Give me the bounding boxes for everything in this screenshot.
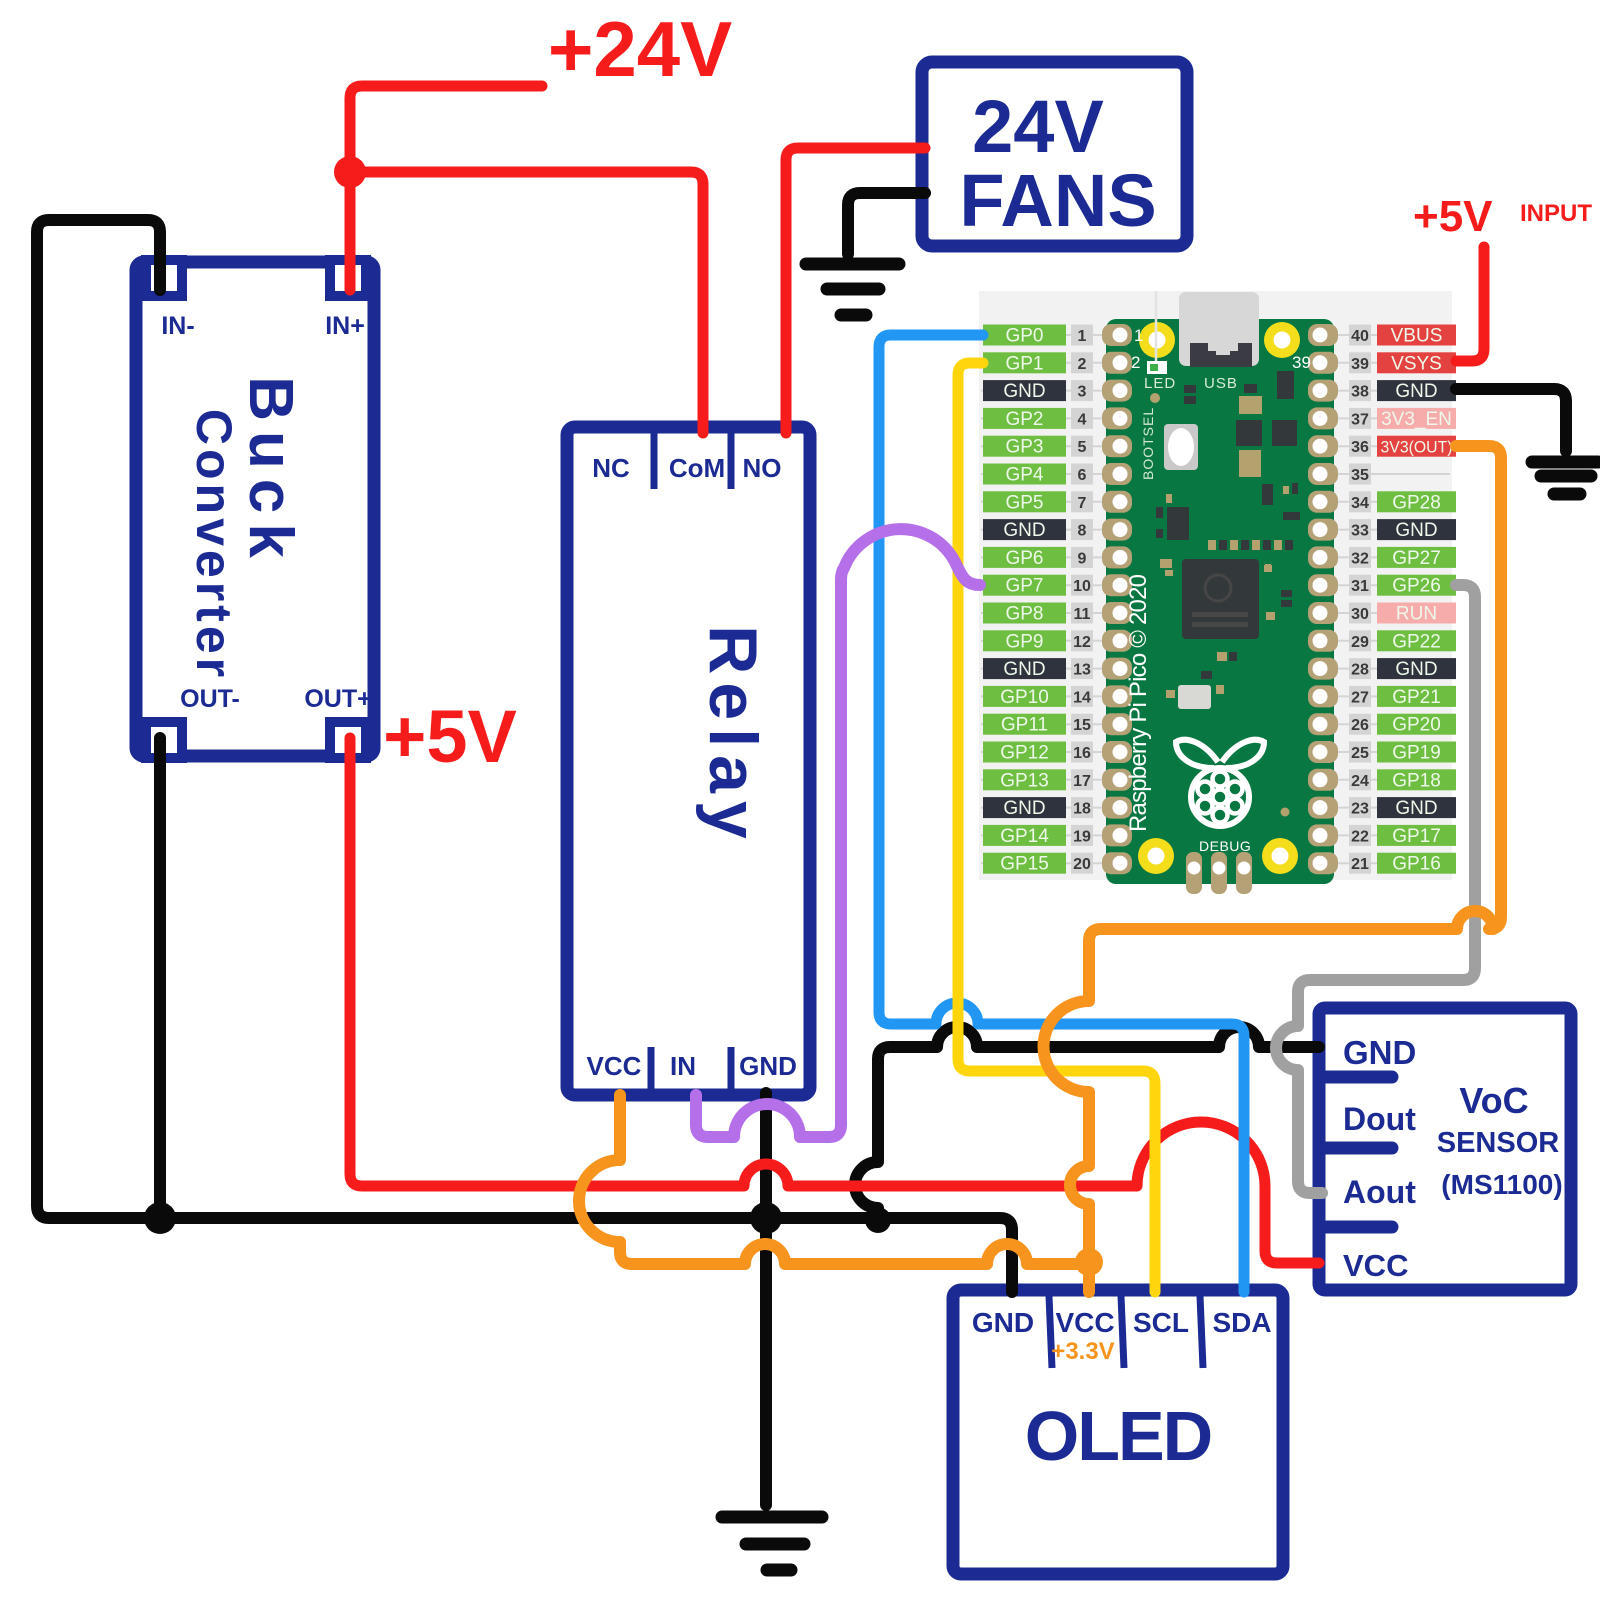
svg-text:24: 24: [1351, 773, 1369, 790]
svg-text:GP9: GP9: [1005, 631, 1043, 652]
svg-text:27: 27: [1351, 689, 1369, 706]
LED: [1144, 291, 1176, 392]
svg-text:12: 12: [1073, 634, 1091, 651]
wire: Pico GP0 to OLED SDA (hop yellow): [879, 335, 1244, 1292]
pin 36 label 3V3(OUT): [1349, 436, 1456, 457]
pin 1 label GP0: [983, 325, 1093, 347]
relay pin labels VCC IN GND: [587, 1051, 797, 1081]
svg-text:GND: GND: [1003, 659, 1045, 680]
svg-text:GP22: GP22: [1392, 631, 1441, 652]
svg-text:Aout: Aout: [1343, 1174, 1416, 1210]
net label +24V: [548, 5, 732, 93]
svg-text:(MS1100): (MS1100): [1441, 1169, 1562, 1200]
net label +5V: [383, 695, 517, 778]
svg-text:GP19: GP19: [1392, 743, 1441, 764]
svg-text:14: 14: [1073, 689, 1091, 706]
svg-text:39: 39: [1292, 353, 1311, 372]
wire: relay GND down to ground symbol: [760, 1093, 772, 1505]
pin row guide lines: [981, 335, 1450, 863]
ground symbol (main bottom): [722, 1517, 822, 1570]
svg-text:31: 31: [1351, 578, 1369, 595]
crystal: [1166, 685, 1211, 709]
svg-text:OUT+: OUT+: [304, 685, 371, 713]
VOC sensor title (MS1100): [1437, 1080, 1563, 1200]
svg-text:GP3: GP3: [1005, 437, 1043, 458]
pin 17 label GP13: [983, 769, 1093, 791]
svg-text:GP6: GP6: [1005, 548, 1043, 569]
svg-text:Raspberry Pi Pico © 2020: Raspberry Pi Pico © 2020: [1125, 574, 1152, 832]
wire: relay VCC to 3.3V rail (bulge around red+black, hops): [579, 1095, 1089, 1264]
wire: Pico GND pin38 to ground: [1456, 389, 1566, 451]
pin 3 label GND: [983, 380, 1093, 402]
buck converter module: [136, 260, 374, 758]
wire: fans box to ground: [848, 193, 925, 254]
svg-text:30: 30: [1351, 606, 1369, 623]
pin 16 label GP12: [983, 742, 1093, 764]
silkscreen "Raspberry Pi Pico (c) 2020": [1125, 574, 1152, 832]
svg-text:40: 40: [1351, 328, 1369, 345]
svg-text:1: 1: [1078, 328, 1087, 345]
wire: buck IN- to ground bus (left loop): [37, 220, 1012, 1292]
net label +5V INPUT: [1413, 192, 1592, 241]
svg-text:6: 6: [1078, 467, 1087, 484]
svg-text:VCC: VCC: [1055, 1307, 1114, 1338]
pin 13 label GND: [983, 658, 1093, 680]
pin 11 label GP8: [983, 603, 1093, 625]
svg-text:32: 32: [1351, 550, 1369, 567]
pin 29 label GP22: [1349, 630, 1456, 652]
wire: Pico GP7 to relay IN (arc, hop black): [696, 529, 980, 1137]
relay title: [695, 625, 771, 846]
svg-text:GP13: GP13: [1000, 770, 1049, 791]
USB connector: [1179, 292, 1259, 367]
svg-text:RUN: RUN: [1396, 604, 1437, 625]
svg-text:Relay: Relay: [695, 625, 771, 846]
svg-text:1: 1: [1134, 326, 1143, 345]
svg-text:GND: GND: [972, 1307, 1034, 1338]
svg-text:GP27: GP27: [1392, 548, 1441, 569]
svg-text:Buck: Buck: [236, 376, 305, 568]
svg-text:5: 5: [1078, 439, 1087, 456]
svg-text:BOOTSEL: BOOTSEL: [1140, 407, 1156, 480]
svg-text:IN: IN: [670, 1051, 696, 1081]
svg-text:INPUT: INPUT: [1520, 200, 1592, 227]
svg-text:FANS: FANS: [959, 159, 1156, 242]
Raspberry Pi logo: [1176, 740, 1264, 826]
relay pin labels NC COM NO: [592, 453, 781, 483]
OLED +3.3V value label: [1051, 1338, 1114, 1365]
pin 7 label GP5: [983, 491, 1093, 513]
relay module: [567, 427, 810, 1095]
pin 19 label GP14: [983, 825, 1093, 847]
passive components: [1150, 371, 1300, 817]
wire: +24V feed to buck IN+: [350, 86, 542, 290]
svg-text:GP5: GP5: [1005, 492, 1043, 513]
svg-text:22: 22: [1351, 828, 1369, 845]
svg-text:29: 29: [1351, 634, 1369, 651]
svg-text:VBUS: VBUS: [1391, 326, 1443, 347]
svg-text:NC: NC: [592, 453, 630, 483]
svg-text:SCL: SCL: [1133, 1307, 1189, 1338]
svg-text:20: 20: [1073, 856, 1091, 873]
svg-text:GP2: GP2: [1005, 409, 1043, 430]
svg-text:GP12: GP12: [1000, 743, 1049, 764]
pin 33 label GND: [1349, 519, 1456, 541]
svg-text:3V3_EN: 3V3_EN: [1381, 409, 1452, 430]
junction: ground bus / relay GND: [750, 1202, 782, 1234]
svg-text:GP26: GP26: [1392, 576, 1441, 597]
svg-text:8: 8: [1078, 523, 1087, 540]
svg-text:GP28: GP28: [1392, 492, 1441, 513]
svg-text:CoM: CoM: [669, 453, 725, 483]
svg-text:VoC: VoC: [1459, 1080, 1528, 1121]
24V fans box: [922, 62, 1187, 246]
svg-text:GP7: GP7: [1005, 576, 1043, 597]
Raspberry Pi Pico pinout panel background: [979, 291, 1452, 880]
pin 30 label RUN: [1349, 603, 1456, 625]
RP2040 chip: [1182, 559, 1259, 639]
svg-text:GP0: GP0: [1005, 326, 1043, 347]
wire: Pico GP1 to OLED SCL: [958, 363, 1155, 1292]
pin 10 label GP7: [983, 575, 1093, 597]
svg-text:21: 21: [1351, 856, 1369, 873]
svg-text:3V3(OUT): 3V3(OUT): [1381, 438, 1453, 457]
svg-text:+5V: +5V: [383, 695, 517, 778]
silkscreen pin numbers 1 2 39: [1131, 326, 1311, 392]
pin 4 label GP2: [983, 408, 1093, 430]
pin 38 label GND: [1349, 380, 1456, 402]
pin 21 label GP16: [1349, 853, 1456, 875]
svg-text:VSYS: VSYS: [1391, 353, 1442, 374]
svg-text:7: 7: [1078, 495, 1087, 512]
svg-text:36: 36: [1351, 439, 1369, 456]
svg-text:GND: GND: [1343, 1034, 1416, 1071]
svg-text:33: 33: [1351, 523, 1369, 540]
svg-text:39: 39: [1351, 356, 1369, 373]
svg-text:24V: 24V: [972, 85, 1104, 168]
svg-text:9: 9: [1078, 550, 1087, 567]
DEBUG label: [1199, 838, 1251, 854]
svg-text:4: 4: [1078, 411, 1087, 428]
VOC sensor box: [1319, 1008, 1571, 1290]
svg-text:+5V: +5V: [1413, 192, 1493, 241]
wire: ground bus up to VOC GND (hops yellow, blue): [855, 1027, 1319, 1218]
wire: +5V buck OUT+ to VOC VCC (hop black, arch over yellow/blue): [350, 738, 1319, 1263]
svg-text:3: 3: [1078, 384, 1087, 401]
pin 18 label GND: [983, 797, 1093, 819]
junction: 3.3V rail at OLED VCC: [1075, 1248, 1103, 1276]
svg-text:IN+: IN+: [325, 312, 365, 340]
svg-text:16: 16: [1073, 745, 1091, 762]
Pico PCB board: [1106, 319, 1334, 884]
svg-text:2: 2: [1131, 353, 1140, 372]
svg-text:GP10: GP10: [1000, 687, 1049, 708]
wire: Pico 3V3(OUT) to OLED VCC (hop gray, bulges): [1044, 446, 1502, 1292]
OLED pin labels GND VCC SCL SDA: [972, 1307, 1272, 1338]
pin 27 label GP21: [1349, 686, 1456, 708]
pin 35 label (none): [1349, 464, 1371, 485]
pin 22 label GP17: [1349, 825, 1456, 847]
svg-text:11: 11: [1074, 606, 1091, 623]
svg-text:SENSOR: SENSOR: [1437, 1127, 1560, 1159]
svg-text:19: 19: [1073, 828, 1091, 845]
svg-text:GND: GND: [1003, 381, 1045, 402]
svg-text:GP4: GP4: [1005, 465, 1043, 486]
pin 39 label VSYS: [1349, 352, 1456, 374]
svg-text:LED: LED: [1144, 375, 1176, 392]
svg-text:34: 34: [1351, 495, 1369, 512]
pin 32 label GP27: [1349, 547, 1456, 569]
OLED display box: [953, 1290, 1283, 1574]
junction: +24V node: [334, 156, 366, 188]
svg-text:Dout: Dout: [1343, 1101, 1416, 1137]
wire: +24V junction to relay COM: [350, 172, 703, 433]
svg-text:2: 2: [1078, 356, 1087, 373]
pin 37 label 3V3_EN: [1349, 408, 1456, 430]
pin 20 label GP15: [983, 853, 1093, 875]
pin 15 label GP11: [983, 714, 1093, 736]
wire: +5V INPUT to Pico VSYS: [1456, 247, 1484, 361]
svg-text:GP18: GP18: [1392, 770, 1441, 791]
svg-text:VCC: VCC: [1343, 1248, 1408, 1283]
svg-text:35: 35: [1351, 467, 1369, 484]
pin 12 label GP9: [983, 630, 1093, 652]
svg-text:Converter: Converter: [186, 409, 242, 681]
mounting holes: [1138, 322, 1300, 874]
svg-text:GND: GND: [1003, 520, 1045, 541]
ground symbol (pico right): [1532, 462, 1598, 494]
Pico edge pads: [1102, 324, 1338, 874]
svg-text:37: 37: [1351, 411, 1369, 428]
pin 34 label GP28: [1349, 491, 1456, 513]
svg-text:GND: GND: [1395, 381, 1437, 402]
pin 40 label VBUS: [1349, 325, 1456, 347]
svg-text:OUT-: OUT-: [180, 685, 240, 713]
junction: ground bus / VOC GND branch: [865, 1207, 891, 1233]
pin 6 label GP4: [983, 464, 1093, 486]
svg-text:25: 25: [1351, 745, 1369, 762]
wire: Pico GP26 to VOC AOUT (bulge around black): [1276, 585, 1475, 1193]
svg-text:GND: GND: [1395, 659, 1437, 680]
svg-text:15: 15: [1073, 717, 1091, 734]
pin 2 label GP1: [983, 352, 1093, 374]
svg-text:+3.3V: +3.3V: [1051, 1338, 1114, 1365]
buck converter title: [186, 376, 305, 681]
ground symbol (fans): [806, 264, 899, 315]
pin 8 label GND: [983, 519, 1093, 541]
svg-text:+24V: +24V: [548, 5, 732, 93]
svg-text:GP11: GP11: [1001, 715, 1048, 736]
svg-text:GP14: GP14: [1000, 826, 1049, 847]
svg-text:OLED: OLED: [1025, 1397, 1211, 1475]
debug pads: [1186, 852, 1252, 894]
svg-text:GND: GND: [739, 1051, 797, 1081]
VOC sensor pin labels: [1343, 1034, 1416, 1283]
svg-text:18: 18: [1073, 801, 1091, 818]
svg-text:USB: USB: [1204, 375, 1238, 392]
BOOTSEL button: [1140, 407, 1198, 480]
24V fans label: [959, 85, 1156, 242]
svg-text:13: 13: [1073, 662, 1091, 679]
svg-text:DEBUG: DEBUG: [1199, 838, 1251, 854]
pin 14 label GP10: [983, 686, 1093, 708]
svg-text:VCC: VCC: [587, 1051, 642, 1081]
pin 9 label GP6: [983, 547, 1093, 569]
pin 31 label GP26: [1349, 575, 1456, 597]
svg-text:38: 38: [1351, 384, 1369, 401]
svg-text:IN-: IN-: [161, 312, 194, 340]
svg-text:17: 17: [1073, 773, 1091, 790]
wire: buck OUT- down to ground bus: [154, 738, 166, 1218]
pin 5 label GP3: [983, 436, 1093, 458]
svg-text:GP8: GP8: [1005, 604, 1043, 625]
svg-text:NO: NO: [743, 453, 782, 483]
pin 23 label GND: [1349, 797, 1456, 819]
svg-text:28: 28: [1351, 662, 1369, 679]
buck converter pin labels: [161, 312, 371, 713]
svg-text:GND: GND: [1395, 798, 1437, 819]
svg-text:SDA: SDA: [1212, 1307, 1271, 1338]
pin 28 label GND: [1349, 658, 1456, 680]
pin 24 label GP18: [1349, 769, 1456, 791]
svg-text:GP17: GP17: [1392, 826, 1441, 847]
svg-text:23: 23: [1351, 801, 1369, 818]
svg-text:GP1: GP1: [1005, 353, 1043, 374]
svg-text:GND: GND: [1003, 798, 1045, 819]
svg-text:GP21: GP21: [1392, 687, 1441, 708]
svg-text:GP15: GP15: [1000, 854, 1049, 875]
wire: relay NO to 24V fans: [786, 148, 925, 433]
svg-text:10: 10: [1073, 578, 1091, 595]
OLED title: [1025, 1397, 1211, 1475]
pin 25 label GP19: [1349, 742, 1456, 764]
junction: ground bus / buck OUT-: [144, 1202, 176, 1234]
pin 26 label GP20: [1349, 714, 1456, 736]
svg-text:GP16: GP16: [1392, 854, 1441, 875]
svg-text:GND: GND: [1395, 520, 1437, 541]
svg-text:GP20: GP20: [1392, 715, 1441, 736]
svg-text:26: 26: [1351, 717, 1369, 734]
